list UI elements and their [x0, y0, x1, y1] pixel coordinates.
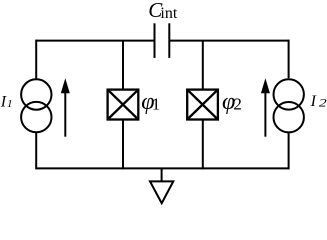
- wire: right branch lower: [288, 133, 290, 169]
- Josephson junction phi1 box: [108, 90, 139, 120]
- svg-text:I: I: [310, 93, 317, 110]
- svg-text:2: 2: [233, 95, 242, 114]
- current source I2 bottom circle: [274, 102, 304, 132]
- wire: junction 2 lower lead: [202, 121, 204, 170]
- wire: junction 2 upper lead: [202, 41, 204, 89]
- Josephson junction phi2 box: [187, 90, 218, 120]
- svg-text:1: 1: [7, 98, 13, 110]
- wire: bottom rail: [36, 167, 288, 169]
- wire: junction 1 lower lead: [122, 121, 124, 170]
- wire: junction 1 upper lead: [122, 41, 124, 89]
- current arrow for I1: [61, 78, 70, 136]
- current arrow for I2: [261, 78, 270, 136]
- ground symbol triangle: [150, 181, 173, 203]
- wire: top rail left segment: [36, 40, 154, 42]
- wire: right branch upper: [288, 40, 290, 79]
- wire: left branch upper: [35, 40, 37, 79]
- current source I2 top circle: [274, 79, 304, 109]
- svg-text:I: I: [0, 94, 7, 111]
- svg-text:2: 2: [319, 97, 327, 109]
- capacitor C_int left plate: [154, 23, 156, 58]
- current source I1 top circle: [21, 79, 51, 109]
- current source I1 bottom circle: [21, 102, 51, 132]
- wire: ground stub: [161, 168, 163, 181]
- wire: left branch lower: [35, 133, 37, 170]
- svg-text:1: 1: [152, 94, 161, 113]
- wire: top rail right segment: [169, 40, 288, 42]
- svg-text:int: int: [160, 5, 177, 22]
- capacitor C_int right plate: [168, 23, 170, 58]
